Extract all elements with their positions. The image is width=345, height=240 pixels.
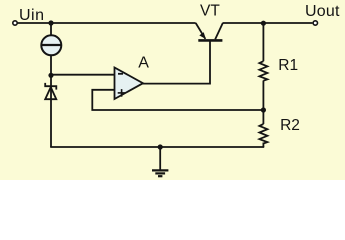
node zener / op-amp inverting input: [48, 73, 53, 78]
wire op-amp inverting input (zener node to op-amp): [51, 74, 115, 76]
wire top rail right (VT collector to Uout): [223, 22, 313, 24]
wire bottom rail: [50, 146, 264, 148]
wire top rail left (Uin to VT emitter): [17, 22, 196, 24]
resistor R1: [259, 61, 267, 80]
wire R2 bottom to bottom rail: [262, 143, 264, 148]
transistor VT: [196, 23, 223, 40]
wire R1 branch top: [262, 23, 264, 61]
wire tap node to R2 top: [262, 110, 264, 124]
svg-text:R1: R1: [278, 57, 298, 74]
node divider tap: [261, 107, 266, 112]
svg-text:R2: R2: [280, 117, 300, 134]
output terminal Uout: [313, 21, 317, 25]
wire feedback (divider tap to op-amp non-inverting input): [92, 90, 263, 110]
svg-text:A: A: [138, 55, 149, 72]
svg-text:Uout: Uout: [305, 3, 340, 20]
op-amp A: [115, 68, 144, 100]
wire left column mid (current source to zener node): [50, 56, 52, 87]
resistor R2: [259, 124, 267, 144]
zener diode VD: [45, 83, 56, 99]
node input rail / current source: [48, 20, 53, 25]
wire op-amp output to VT base: [143, 41, 211, 84]
node bottom rail / ground: [158, 144, 163, 149]
node top rail / R1 branch: [261, 21, 266, 26]
current source I1: [41, 35, 62, 55]
wire left column top (rail to current source): [50, 23, 52, 36]
svg-text:Uin: Uin: [19, 7, 45, 24]
wire R1 bottom to tap node: [262, 81, 264, 111]
wire ground stub: [159, 147, 161, 170]
svg-text:VT: VT: [200, 2, 220, 19]
input terminal Uin: [13, 21, 17, 25]
ground: [152, 170, 168, 176]
wire left column bottom (zener to bottom rail): [50, 86, 52, 147]
